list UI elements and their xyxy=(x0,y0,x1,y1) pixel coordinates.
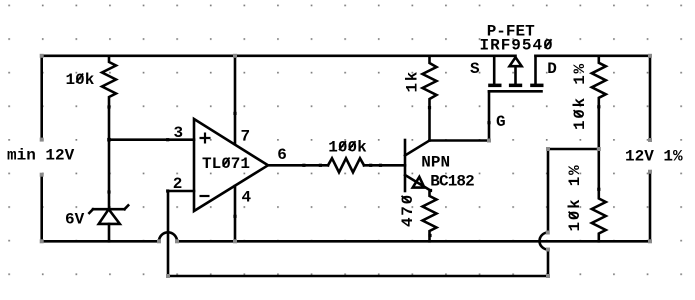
wire feedback ascent to divider tap xyxy=(548,149,599,233)
svg-text:6V: 6V xyxy=(65,211,85,229)
label 470 value R4 rotated xyxy=(399,193,417,227)
wire zener to bottom rail xyxy=(108,224,111,241)
node divider tap left end xyxy=(546,147,550,151)
op-amp U1 TL071 triangle xyxy=(194,119,268,211)
node bottom-left corner xyxy=(40,239,44,243)
resistor R2 100k xyxy=(328,158,364,172)
node output wire upper end xyxy=(648,138,652,142)
wire divider chain upper xyxy=(597,107,600,190)
svg-text:NPN: NPN xyxy=(421,154,450,172)
slash of zero in IRF9540 xyxy=(545,39,552,48)
slashes of zeros in 100k xyxy=(339,141,355,150)
svg-text:10k: 10k xyxy=(66,71,95,89)
pin dot R1 bottom lead xyxy=(107,105,110,108)
node input wire upper end xyxy=(40,138,44,142)
p-fet Q2 drain channel tick xyxy=(530,84,543,88)
svg-text:min 12V: min 12V xyxy=(7,147,75,165)
wire collector node to FET gate xyxy=(430,91,490,140)
p-fet Q2 drain lead xyxy=(534,56,537,84)
wire right rail lower segment xyxy=(649,172,652,242)
p-fet Q2 body channel tick xyxy=(509,84,522,88)
svg-text:10k 1%: 10k 1% xyxy=(571,62,589,130)
wire left rail lower segment xyxy=(40,175,43,242)
slash of zero in TL071 xyxy=(223,158,230,167)
transistor Q1 collector xyxy=(405,141,430,156)
transistor Q1 emitter with arrow xyxy=(405,175,431,191)
pin dot op-amp pin 4 lead xyxy=(233,215,236,218)
pin dot zener cathode lead xyxy=(107,190,110,193)
resistor R1 10k xyxy=(102,56,116,107)
p-fet Q2 gate electrode bar xyxy=(489,90,542,93)
svg-text:6: 6 xyxy=(277,146,287,164)
wire op-amp pin 3 input xyxy=(109,138,194,141)
resistor R6 10k 1% lower xyxy=(592,189,606,241)
wire top rail left segment xyxy=(42,54,516,57)
wire op-amp output pin 6 xyxy=(268,164,328,167)
pin dot R4 top lead at emitter xyxy=(429,189,432,192)
node gate wire corner xyxy=(487,139,491,143)
node right hop lower end xyxy=(546,248,550,252)
resistor R4 470 xyxy=(423,191,437,241)
node pin 4 at bottom rail xyxy=(233,239,237,243)
slash of zero in 10k xyxy=(76,74,83,83)
resistor R5 10k 1% upper xyxy=(592,56,606,107)
label 10k 1% value R6 rotated xyxy=(566,164,584,232)
transistor Q1 base bar xyxy=(404,140,407,191)
pin dot R5 bottom lead xyxy=(597,105,600,108)
svg-text:TL071: TL071 xyxy=(202,155,250,173)
op-amp minus input marking xyxy=(200,195,210,197)
svg-text:10k 1%: 10k 1% xyxy=(566,164,584,232)
node feedback right corner xyxy=(546,274,550,278)
svg-text:470: 470 xyxy=(399,193,417,227)
svg-text:2: 2 xyxy=(173,175,183,193)
wire top rail right segment xyxy=(536,54,651,57)
node right hop upper end xyxy=(546,231,550,235)
svg-text:S: S xyxy=(470,60,480,78)
pin dot R3 bottom lead xyxy=(428,106,431,109)
node feedback left corner xyxy=(166,274,170,278)
svg-text:7: 7 xyxy=(241,128,251,146)
p-fet Q2 source lead xyxy=(493,56,496,84)
svg-text:1k: 1k xyxy=(404,70,422,93)
node top-left corner xyxy=(40,54,44,58)
dot on output wire xyxy=(302,164,305,167)
zener diode D1 6V xyxy=(89,205,128,224)
wire op-amp pin 4 supply xyxy=(234,186,237,241)
svg-text:4: 4 xyxy=(242,189,252,207)
svg-text:BC182: BC182 xyxy=(430,172,474,190)
wire 100k to transistor base xyxy=(364,164,405,167)
wire op-amp pin 2 and feedback loop lower run xyxy=(168,191,548,276)
wire 1k to collector node xyxy=(428,108,431,141)
node pin 7 at top rail xyxy=(233,54,237,58)
label 1k value R3 rotated xyxy=(404,70,422,93)
svg-text:G: G xyxy=(496,113,506,131)
node divider tap at chain xyxy=(597,147,601,151)
node output wire lower end xyxy=(648,170,652,174)
svg-text:IRF9540: IRF9540 xyxy=(480,37,554,55)
wire hop of feedback ascent over bottom rail xyxy=(540,233,549,250)
dot on base wire xyxy=(379,164,382,167)
svg-text:D: D xyxy=(547,60,557,78)
p-fet Q2 body arrow and lead xyxy=(510,57,522,83)
pin dot R4 bottom lead xyxy=(428,234,431,237)
wire left rail upper segment xyxy=(40,56,43,140)
wire hop over feedback at left xyxy=(159,232,177,241)
pin dot Q2 gate lead xyxy=(487,121,490,124)
node input wire lower end xyxy=(40,173,44,177)
pin dot R2 left lead xyxy=(319,164,322,167)
node left hop west end xyxy=(157,239,161,243)
resistor R3 1k xyxy=(423,56,437,108)
label 10k 1% value R5 rotated xyxy=(571,62,589,130)
node top-right corner xyxy=(648,54,652,58)
node left hop east end xyxy=(175,239,179,243)
pin dot R6 top lead xyxy=(597,188,600,191)
pin dot op-amp pin 2 lead xyxy=(166,189,169,192)
svg-text:100k: 100k xyxy=(328,139,367,157)
pin dot op-amp pin 3 lead xyxy=(166,138,169,141)
p-fet Q2 source channel tick xyxy=(488,84,501,88)
node bottom-right corner xyxy=(648,239,652,243)
op-amp plus input marking xyxy=(200,133,211,144)
junction node 6V reference at pin 3 tee xyxy=(107,138,111,142)
svg-text:12V 1%: 12V 1% xyxy=(625,147,683,165)
svg-text:3: 3 xyxy=(174,124,184,142)
pin dot op-amp pin 7 lead xyxy=(233,112,236,115)
pin dot R2 right lead xyxy=(369,164,372,167)
wire op-amp pin 7 supply xyxy=(234,56,237,144)
wire right rail upper segment xyxy=(649,56,652,140)
wire bottom rail right segment xyxy=(177,240,650,243)
wire bottom rail left segment xyxy=(42,240,159,243)
wire node A 6V reference vertical xyxy=(108,107,111,209)
